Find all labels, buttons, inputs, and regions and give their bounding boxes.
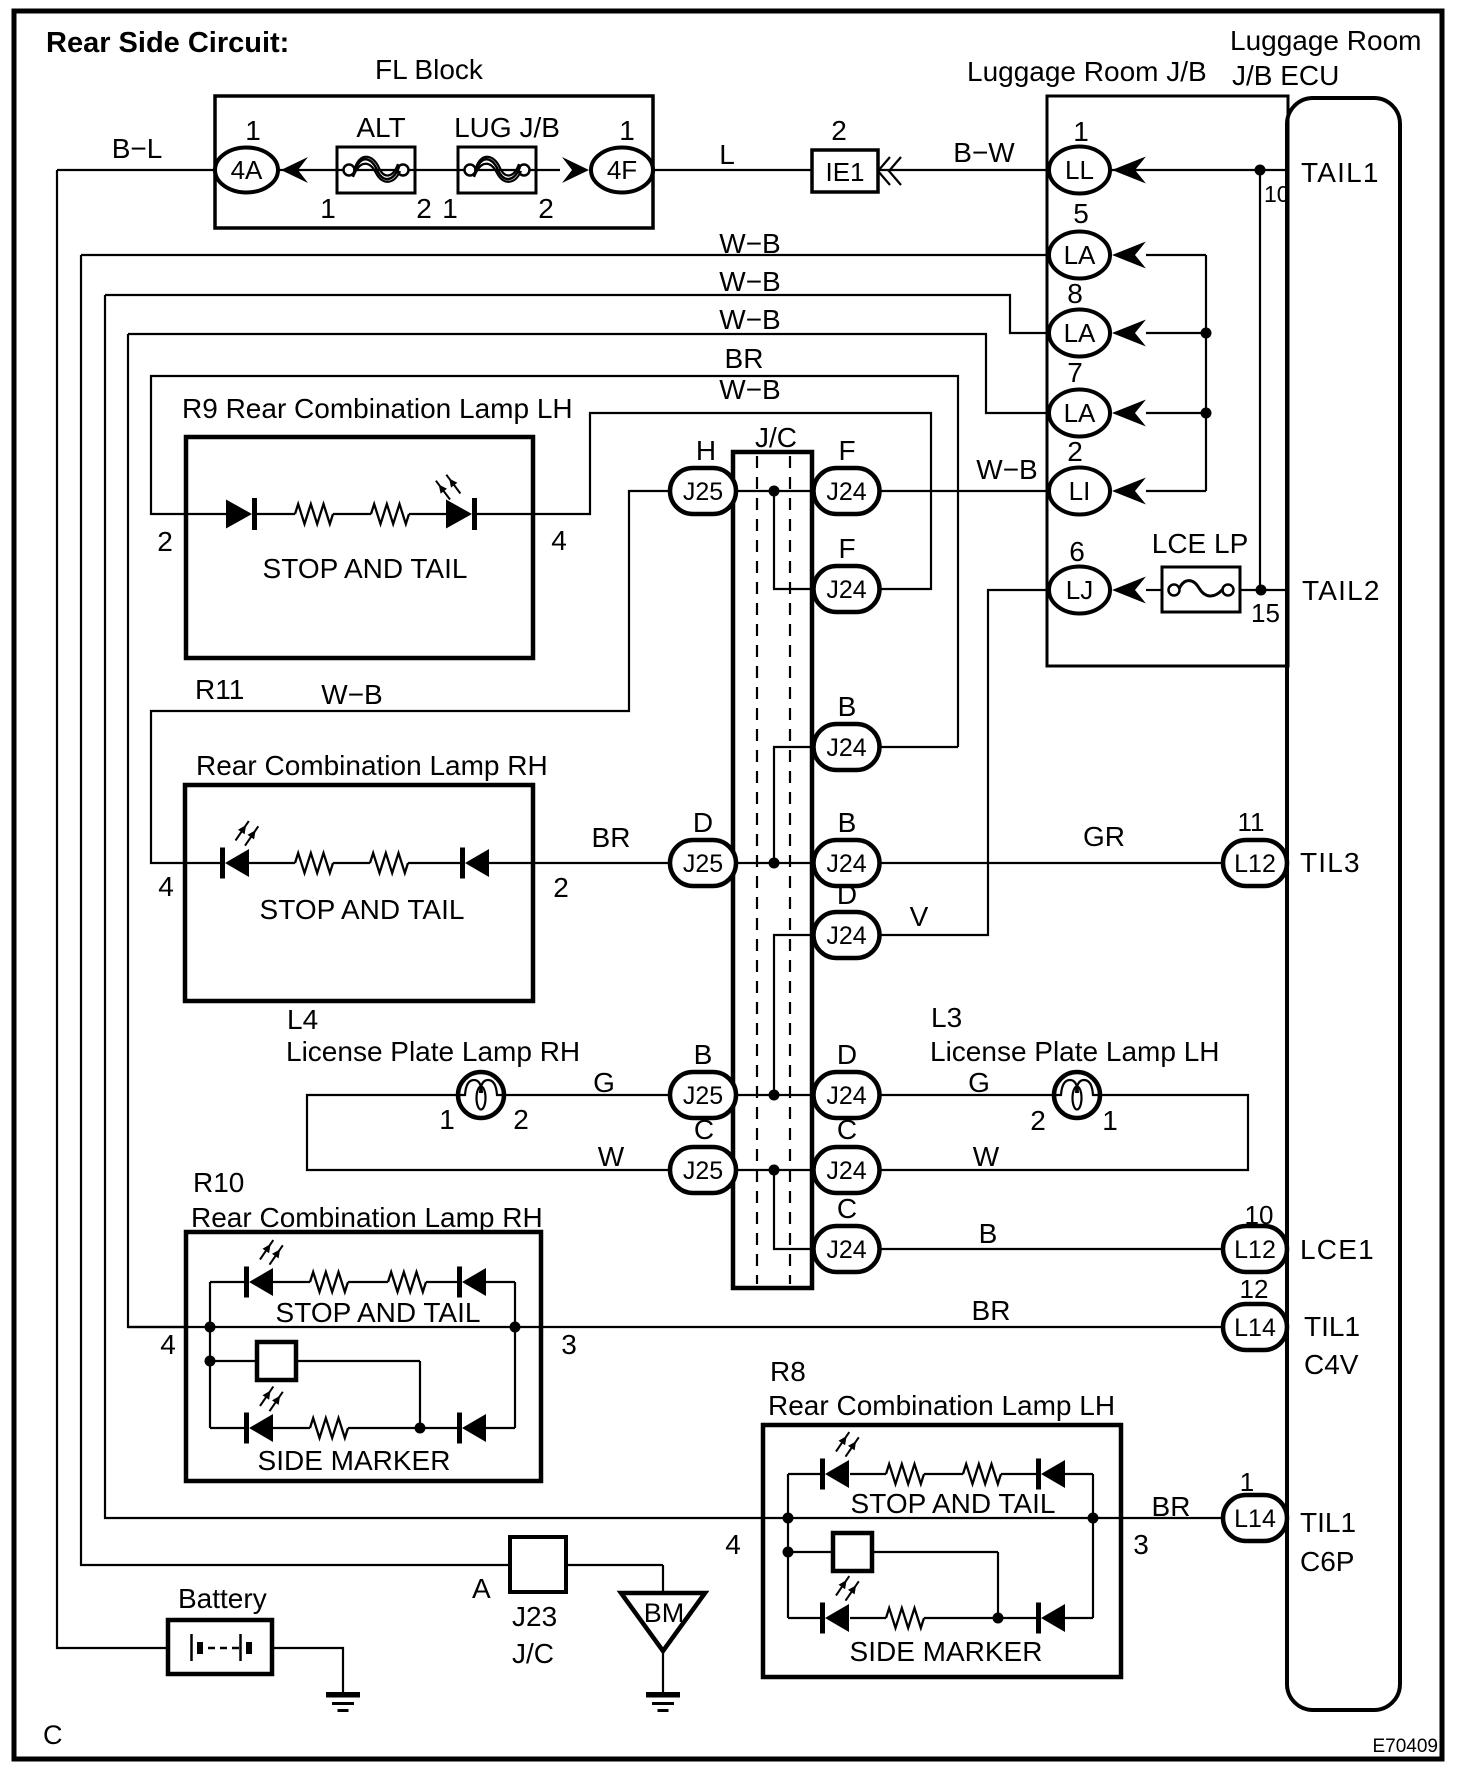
svg-text:Battery: Battery [178,1583,267,1614]
lamp R8 box [763,1425,1121,1677]
svg-text:4: 4 [551,525,567,556]
svg-text:5: 5 [1073,198,1089,229]
svg-text:TIL1: TIL1 [1304,1311,1360,1342]
connector L14 TIL1 C6P [1223,1495,1287,1541]
resistor R9 b [371,504,409,524]
junction dot R8 left [783,1513,794,1524]
junction dot TAIL2 [1256,585,1267,596]
junction dot TAIL1 [1255,165,1266,176]
arrow LA5 [1112,242,1146,269]
LED flash R10 marker [260,1387,273,1406]
connector 4F [591,148,653,193]
wire B LCE1 [878,1248,1223,1250]
svg-text:C: C [694,1114,714,1145]
junction connector J23 [510,1537,566,1592]
svg-text:3: 3 [1133,1529,1149,1560]
connector L14 TIL1 C4V [1223,1304,1287,1350]
svg-text:1: 1 [245,115,261,146]
svg-text:LA: LA [1064,398,1096,428]
svg-text:J23: J23 [512,1601,557,1632]
connector J25 B [670,1072,736,1118]
ground point BM [621,1593,705,1651]
connector J25 H [670,468,736,514]
connector J24 B2 [814,840,880,886]
svg-text:J24: J24 [826,922,866,950]
LED flash R8 marker [836,1576,849,1595]
svg-text:J24: J24 [826,1157,866,1185]
svg-text:L14: L14 [1234,1505,1276,1533]
svg-text:W−B: W−B [719,228,780,259]
diode R10 stop left [244,1267,249,1298]
svg-text:IE1: IE1 [825,157,864,187]
wire R10 left bus [209,1282,211,1428]
connector J25 D [670,840,736,886]
svg-text:R9 Rear Combination Lamp LH: R9 Rear Combination Lamp LH [182,393,573,424]
svg-text:LA: LA [1064,318,1096,348]
connector LL [1049,147,1110,194]
svg-text:J25: J25 [683,1157,723,1185]
svg-text:F: F [838,533,855,564]
svg-text:ALT: ALT [356,112,405,143]
svg-text:7: 7 [1067,357,1083,388]
Luggage Room J/B box [1047,96,1288,666]
bulb L4 License Plate Lamp RH [458,1072,504,1118]
wire R9 row [186,513,228,515]
LED flash R11 [236,821,249,840]
wire R8 left bus [787,1474,789,1618]
svg-text:B−W: B−W [953,137,1015,168]
diode R8 stop right [1036,1459,1041,1490]
wire LI [1146,490,1206,492]
wire row D-B [734,862,815,864]
svg-text:LL: LL [1065,155,1094,185]
wire LA5 [1146,254,1206,256]
svg-text:STOP AND TAIL: STOP AND TAIL [851,1488,1056,1519]
connector L12 TIL3 [1223,840,1287,886]
svg-text:J24: J24 [826,576,866,604]
svg-text:B: B [838,807,857,838]
svg-text:C4V: C4V [1304,1349,1359,1380]
arrow into 4A [281,157,308,183]
diode R8 marker right [1036,1603,1041,1634]
junction block J/C box [733,452,812,1288]
ground battery [326,1692,360,1698]
dashed bus line a [756,456,758,1284]
connector J24 B1 [814,724,880,770]
bulb L3 License Plate Lamp LH [1054,1072,1100,1118]
wire row H-F [734,490,815,492]
svg-text:FL Block: FL Block [375,54,484,85]
wire R8 stop row [788,1473,824,1475]
wire TIL1 C6P row [763,1517,1223,1519]
svg-text:1: 1 [320,193,336,224]
svg-text:11: 11 [1238,807,1265,837]
wire W-B R9pin4 [533,413,931,589]
fusible link LUG J/B [458,147,536,193]
wire R10 right bus [514,1282,516,1428]
svg-text:L4: L4 [287,1004,318,1035]
svg-text:1: 1 [619,115,635,146]
svg-text:BR: BR [725,343,764,374]
wire R8 right bus [1092,1474,1094,1618]
svg-text:BR: BR [972,1295,1011,1326]
wire W lamp RH [307,1095,672,1170]
svg-text:Luggage Room J/B: Luggage Room J/B [967,56,1207,87]
diode R8 marker left [820,1603,825,1634]
svg-text:W−B: W−B [321,679,382,710]
diode R9 left [226,500,252,529]
svg-text:4: 4 [725,1529,741,1560]
svg-text:STOP AND TAIL: STOP AND TAIL [263,553,468,584]
junction dot R10 right [510,1322,521,1333]
diode R10 marker left [244,1413,249,1444]
svg-text:E70409: E70409 [1372,1736,1438,1757]
svg-text:H: H [696,435,716,466]
diode R9 right [446,500,472,529]
svg-text:J/B ECU: J/B ECU [1232,60,1339,91]
junction dot J/C 4 [769,1165,780,1176]
svg-text:C: C [43,1720,63,1750]
svg-text:3: 3 [561,1329,577,1360]
wire ground bus right [1205,255,1207,491]
svg-text:J24: J24 [826,1082,866,1110]
svg-text:W: W [598,1141,625,1172]
diode R11 right [460,848,465,879]
svg-text:LA: LA [1064,240,1096,270]
svg-text:V: V [910,901,929,932]
wire row B-D [734,1094,815,1096]
svg-text:R11: R11 [195,674,244,705]
side marker block R10 [257,1342,296,1380]
LED flash R10 stop [260,1240,273,1259]
svg-text:1: 1 [442,193,458,224]
wire LJ to fuse [1146,589,1162,591]
svg-text:J24: J24 [826,1236,866,1264]
svg-text:6: 6 [1069,536,1085,567]
wire BR R11 to J25 [533,862,672,864]
wire TAIL2 [1240,589,1287,591]
wire L [653,169,812,171]
wire LA7 [1146,412,1206,414]
resistor R11 b [370,853,408,873]
svg-text:2: 2 [157,526,173,557]
connector LA pin5 [1049,232,1110,279]
connector J24 D2 [814,1072,880,1118]
svg-text:2: 2 [416,193,432,224]
junction dot J/C 3 [769,1090,780,1101]
diode R10 stop right [457,1267,462,1298]
wire W-B LA8 [105,295,1049,333]
connector IE1 [812,150,878,192]
svg-text:Luggage Room: Luggage Room [1230,25,1421,56]
svg-text:2: 2 [1030,1105,1046,1136]
svg-text:C6P: C6P [1300,1546,1354,1577]
svg-text:License Plate Lamp RH: License Plate Lamp RH [286,1036,580,1067]
connector J25 C [670,1147,736,1193]
diode R10 marker right [457,1413,462,1444]
FL Block box [215,96,653,228]
resistor R9 a [295,504,333,524]
svg-text:BM: BM [644,1598,685,1628]
fuse LCE LP [1162,567,1240,612]
lamp R9 box [186,437,533,658]
diode R8 stop left [820,1459,825,1490]
wire W-B F1 to LI [878,490,1049,492]
wire A J23 [566,1564,663,1566]
svg-text:R8: R8 [770,1356,806,1387]
resistor R10 stop b [388,1272,426,1292]
svg-text:Rear Combination Lamp LH: Rear Combination Lamp LH [768,1390,1115,1421]
svg-text:R10: R10 [193,1167,244,1198]
resistor R8 stop b [963,1464,1001,1484]
lamp R10 box [186,1232,541,1481]
svg-text:D: D [693,807,713,838]
LED flash R9 [436,481,450,500]
svg-text:J24: J24 [826,850,866,878]
svg-text:L12: L12 [1234,1236,1276,1264]
arrow LL [1112,157,1146,184]
svg-text:G: G [968,1067,990,1098]
connector LA pin7 [1049,390,1110,437]
wire BM to ground [662,1651,664,1692]
svg-text:2: 2 [831,115,847,146]
svg-text:Rear Combination Lamp RH: Rear Combination Lamp RH [191,1202,543,1233]
svg-text:W: W [973,1141,1000,1172]
lamp R11 box [185,785,533,1001]
svg-text:W−B: W−B [976,454,1037,485]
svg-text:J/C: J/C [512,1638,554,1669]
svg-text:G: G [593,1067,615,1098]
svg-text:SIDE MARKER: SIDE MARKER [850,1636,1043,1667]
connector LJ [1049,567,1110,614]
svg-text:J25: J25 [683,850,723,878]
svg-text:L12: L12 [1234,850,1276,878]
svg-text:TAIL1: TAIL1 [1301,157,1380,188]
connector J24 F2 [814,566,880,612]
svg-text:BR: BR [592,822,631,853]
svg-text:TAIL2: TAIL2 [1302,575,1381,606]
wire J/C link D [774,935,814,1095]
connector J24 D1 [814,912,880,958]
svg-text:W−B: W−B [719,374,780,405]
wire TIL1 C4V row [128,1326,1223,1328]
wire R10 marker row [210,1427,246,1429]
svg-text:J25: J25 [683,1082,723,1110]
wire FL block internal [57,169,216,171]
junction dot R10 marker [415,1423,426,1434]
wire BR R9pin2 [151,376,958,747]
resistor R10 marker [310,1418,348,1438]
svg-text:B: B [979,1218,998,1249]
resistor R10 stop a [310,1272,348,1292]
junction dot R8 feed [783,1547,794,1558]
svg-text:Rear Combination Lamp RH: Rear Combination Lamp RH [196,750,548,781]
wire TAIL1-TAIL2 link [1259,170,1261,590]
wire W-B left drop R8 [105,295,763,1518]
svg-text:F: F [838,435,855,466]
chevrons IE1 [878,157,901,185]
svg-text:J24: J24 [826,478,866,506]
wire W lamp LH [878,1095,1248,1170]
svg-text:W−B: W−B [719,304,780,335]
svg-text:STOP AND TAIL: STOP AND TAIL [260,894,465,925]
svg-text:12: 12 [1240,1274,1269,1304]
svg-text:LI: LI [1069,476,1091,506]
wire B-W [878,169,1287,171]
svg-text:2: 2 [538,193,554,224]
svg-text:4A: 4A [231,155,263,185]
wire row C-C [734,1169,815,1171]
connector J24 C1 [814,1147,880,1193]
wire J/C link C [774,1170,814,1249]
svg-text:TIL1: TIL1 [1300,1507,1356,1538]
svg-text:STOP AND TAIL: STOP AND TAIL [276,1297,481,1328]
wire V LJ [878,590,1049,935]
svg-text:LCE LP: LCE LP [1152,528,1249,559]
junction dot J/C 1 [769,486,780,497]
svg-text:B: B [694,1039,713,1070]
svg-text:B: B [838,691,857,722]
side marker block R8 [833,1533,872,1571]
arrow LJ [1112,577,1146,604]
junction dot LA7 [1201,408,1212,419]
connector J24 F1 [814,468,880,514]
svg-text:TIL3: TIL3 [1300,847,1361,878]
ground BM [646,1692,680,1698]
svg-text:LJ: LJ [1066,575,1093,605]
svg-text:L3: L3 [931,1002,962,1033]
svg-text:A: A [472,1573,491,1604]
junction dot R8 right [1088,1513,1099,1524]
svg-text:LCE1: LCE1 [1300,1234,1375,1265]
battery B1 [168,1620,272,1674]
svg-text:J/C: J/C [755,422,797,453]
wire B-L battery feed [57,170,168,1648]
svg-text:15: 15 [1251,598,1280,628]
junction dot R10 left [205,1322,216,1333]
wire battery to ground [272,1648,343,1692]
svg-text:1: 1 [1102,1105,1118,1136]
dashed bus line b [789,456,791,1284]
wire LA8 [1146,332,1206,334]
junction dot R10 feed [205,1356,216,1367]
connector L12 LCE1 [1223,1226,1287,1272]
svg-text:8: 8 [1067,278,1083,309]
svg-text:GR: GR [1083,821,1125,852]
wire R10 stop row [210,1281,246,1283]
wire W-B LA5 [81,254,1049,256]
svg-text:B−L: B−L [112,133,163,164]
wire G lamp RH [504,1094,672,1096]
svg-text:C: C [837,1193,857,1224]
svg-text:4: 4 [160,1329,176,1360]
wire J/C link B [774,747,814,863]
svg-text:1: 1 [1073,116,1089,147]
svg-text:C: C [837,1114,857,1145]
svg-text:Rear Side Circuit:: Rear Side Circuit: [46,27,289,59]
resistor R11 a [295,853,333,873]
svg-text:4: 4 [158,871,174,902]
svg-text:2: 2 [553,872,569,903]
svg-text:SIDE MARKER: SIDE MARKER [258,1445,451,1476]
junction dot J/C 2 [769,858,780,869]
arrow LA7 [1112,400,1146,427]
wire J/C link F [774,491,814,589]
svg-text:4F: 4F [607,155,637,185]
wire W-B LA7 [128,334,1049,413]
wire G lamp LH [878,1094,1054,1096]
svg-text:L14: L14 [1234,1314,1276,1342]
resistor R8 stop a [886,1464,924,1484]
arrow LA8 [1112,320,1146,347]
arrow into 4F [562,157,589,183]
wire GR TIL3 [878,862,1223,864]
fusible link ALT [337,147,415,193]
wire W-B H to R11 pin4 [151,491,671,863]
resistor R8 marker [886,1608,924,1628]
junction dot R8 marker [993,1613,1004,1624]
wire W-B left drop R10 [128,334,186,1327]
svg-text:2: 2 [1067,436,1083,467]
svg-text:1: 1 [439,1104,455,1135]
svg-text:LUG J/B: LUG J/B [454,112,560,143]
Luggage Room J/B ECU box [1287,98,1400,1710]
svg-text:W−B: W−B [719,266,780,297]
junction dot LA8 [1201,328,1212,339]
arrow LI [1112,478,1146,505]
svg-text:L: L [719,139,735,170]
svg-text:J24: J24 [826,734,866,762]
wire R10 marker feed [210,1360,257,1362]
wire R8 marker row [788,1617,824,1619]
wire W-B left drop J23 [81,255,510,1565]
svg-text:1: 1 [1240,1467,1254,1497]
svg-text:License Plate Lamp LH: License Plate Lamp LH [930,1036,1220,1067]
connector J24 C2 [814,1226,880,1272]
svg-text:D: D [837,879,857,910]
wire R8 marker feed [788,1551,833,1553]
connector 4A [215,148,278,193]
diode R11 left [220,848,225,879]
connector LI [1049,468,1110,515]
LED flash R8 stop [836,1432,849,1451]
connector LA pin8 [1049,310,1110,357]
svg-text:J25: J25 [683,478,723,506]
svg-text:2: 2 [513,1104,529,1135]
svg-text:D: D [837,1039,857,1070]
wire R11 row [185,862,222,864]
svg-text:BR: BR [1152,1491,1191,1522]
